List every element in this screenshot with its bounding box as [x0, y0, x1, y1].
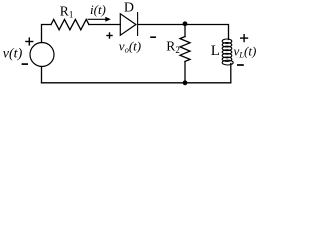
svg-text:L: L	[211, 43, 220, 59]
svg-text:vo(t): vo(t)	[119, 39, 141, 55]
diode D triangle	[120, 14, 136, 35]
node dot bottom (R2/bottom wire junction)	[183, 80, 188, 85]
resistor R2 stub top	[184, 25, 186, 37]
wire top-left segment	[42, 25, 52, 43]
resistor R2 stub bottom	[184, 62, 186, 83]
svg-text:v(t): v(t)	[3, 47, 23, 62]
wire source bottom	[41, 67, 43, 83]
node dot top (diode/R2/L junction)	[183, 21, 188, 26]
svg-text:vL(t): vL(t)	[234, 43, 257, 59]
voltage source v(t) circle	[30, 43, 54, 67]
label + (inductor)	[240, 34, 248, 42]
inductor L coil	[222, 39, 233, 65]
diode D cathode bar	[137, 13, 139, 36]
label minus (source)	[22, 63, 28, 65]
wire diode to node	[138, 24, 185, 26]
label minus (inductor)	[237, 64, 244, 66]
svg-text:i(t): i(t)	[90, 2, 106, 17]
wire resistor to diode	[89, 24, 120, 26]
label + (source)	[25, 37, 33, 45]
label + (diode anode)	[106, 32, 112, 38]
resistor R2	[180, 37, 190, 62]
inductor L bottom stub	[230, 64, 232, 83]
label minus (diode cathode)	[150, 36, 156, 38]
current arrow i(t)	[88, 17, 111, 22]
svg-text:D: D	[124, 0, 134, 15]
bottom wire	[42, 82, 231, 84]
wire node to top-right corner	[185, 25, 229, 40]
resistor R1	[51, 19, 89, 29]
